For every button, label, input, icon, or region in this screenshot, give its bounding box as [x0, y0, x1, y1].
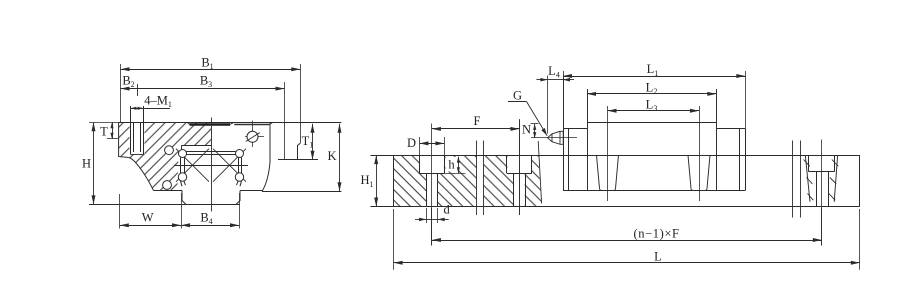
- svg-text:G: G: [513, 88, 522, 102]
- svg-text:4–M1: 4–M1: [144, 93, 172, 109]
- svg-text:N: N: [522, 122, 531, 136]
- svg-text:W: W: [142, 210, 154, 224]
- svg-text:(n−1)×F: (n−1)×F: [633, 226, 679, 240]
- svg-text:F: F: [474, 114, 481, 128]
- svg-text:K: K: [327, 149, 336, 163]
- svg-text:h: h: [448, 158, 455, 172]
- svg-text:T: T: [100, 125, 108, 139]
- svg-text:d: d: [443, 202, 450, 216]
- svg-text:D: D: [407, 136, 416, 150]
- svg-text:L: L: [654, 249, 662, 263]
- svg-text:H: H: [82, 157, 91, 171]
